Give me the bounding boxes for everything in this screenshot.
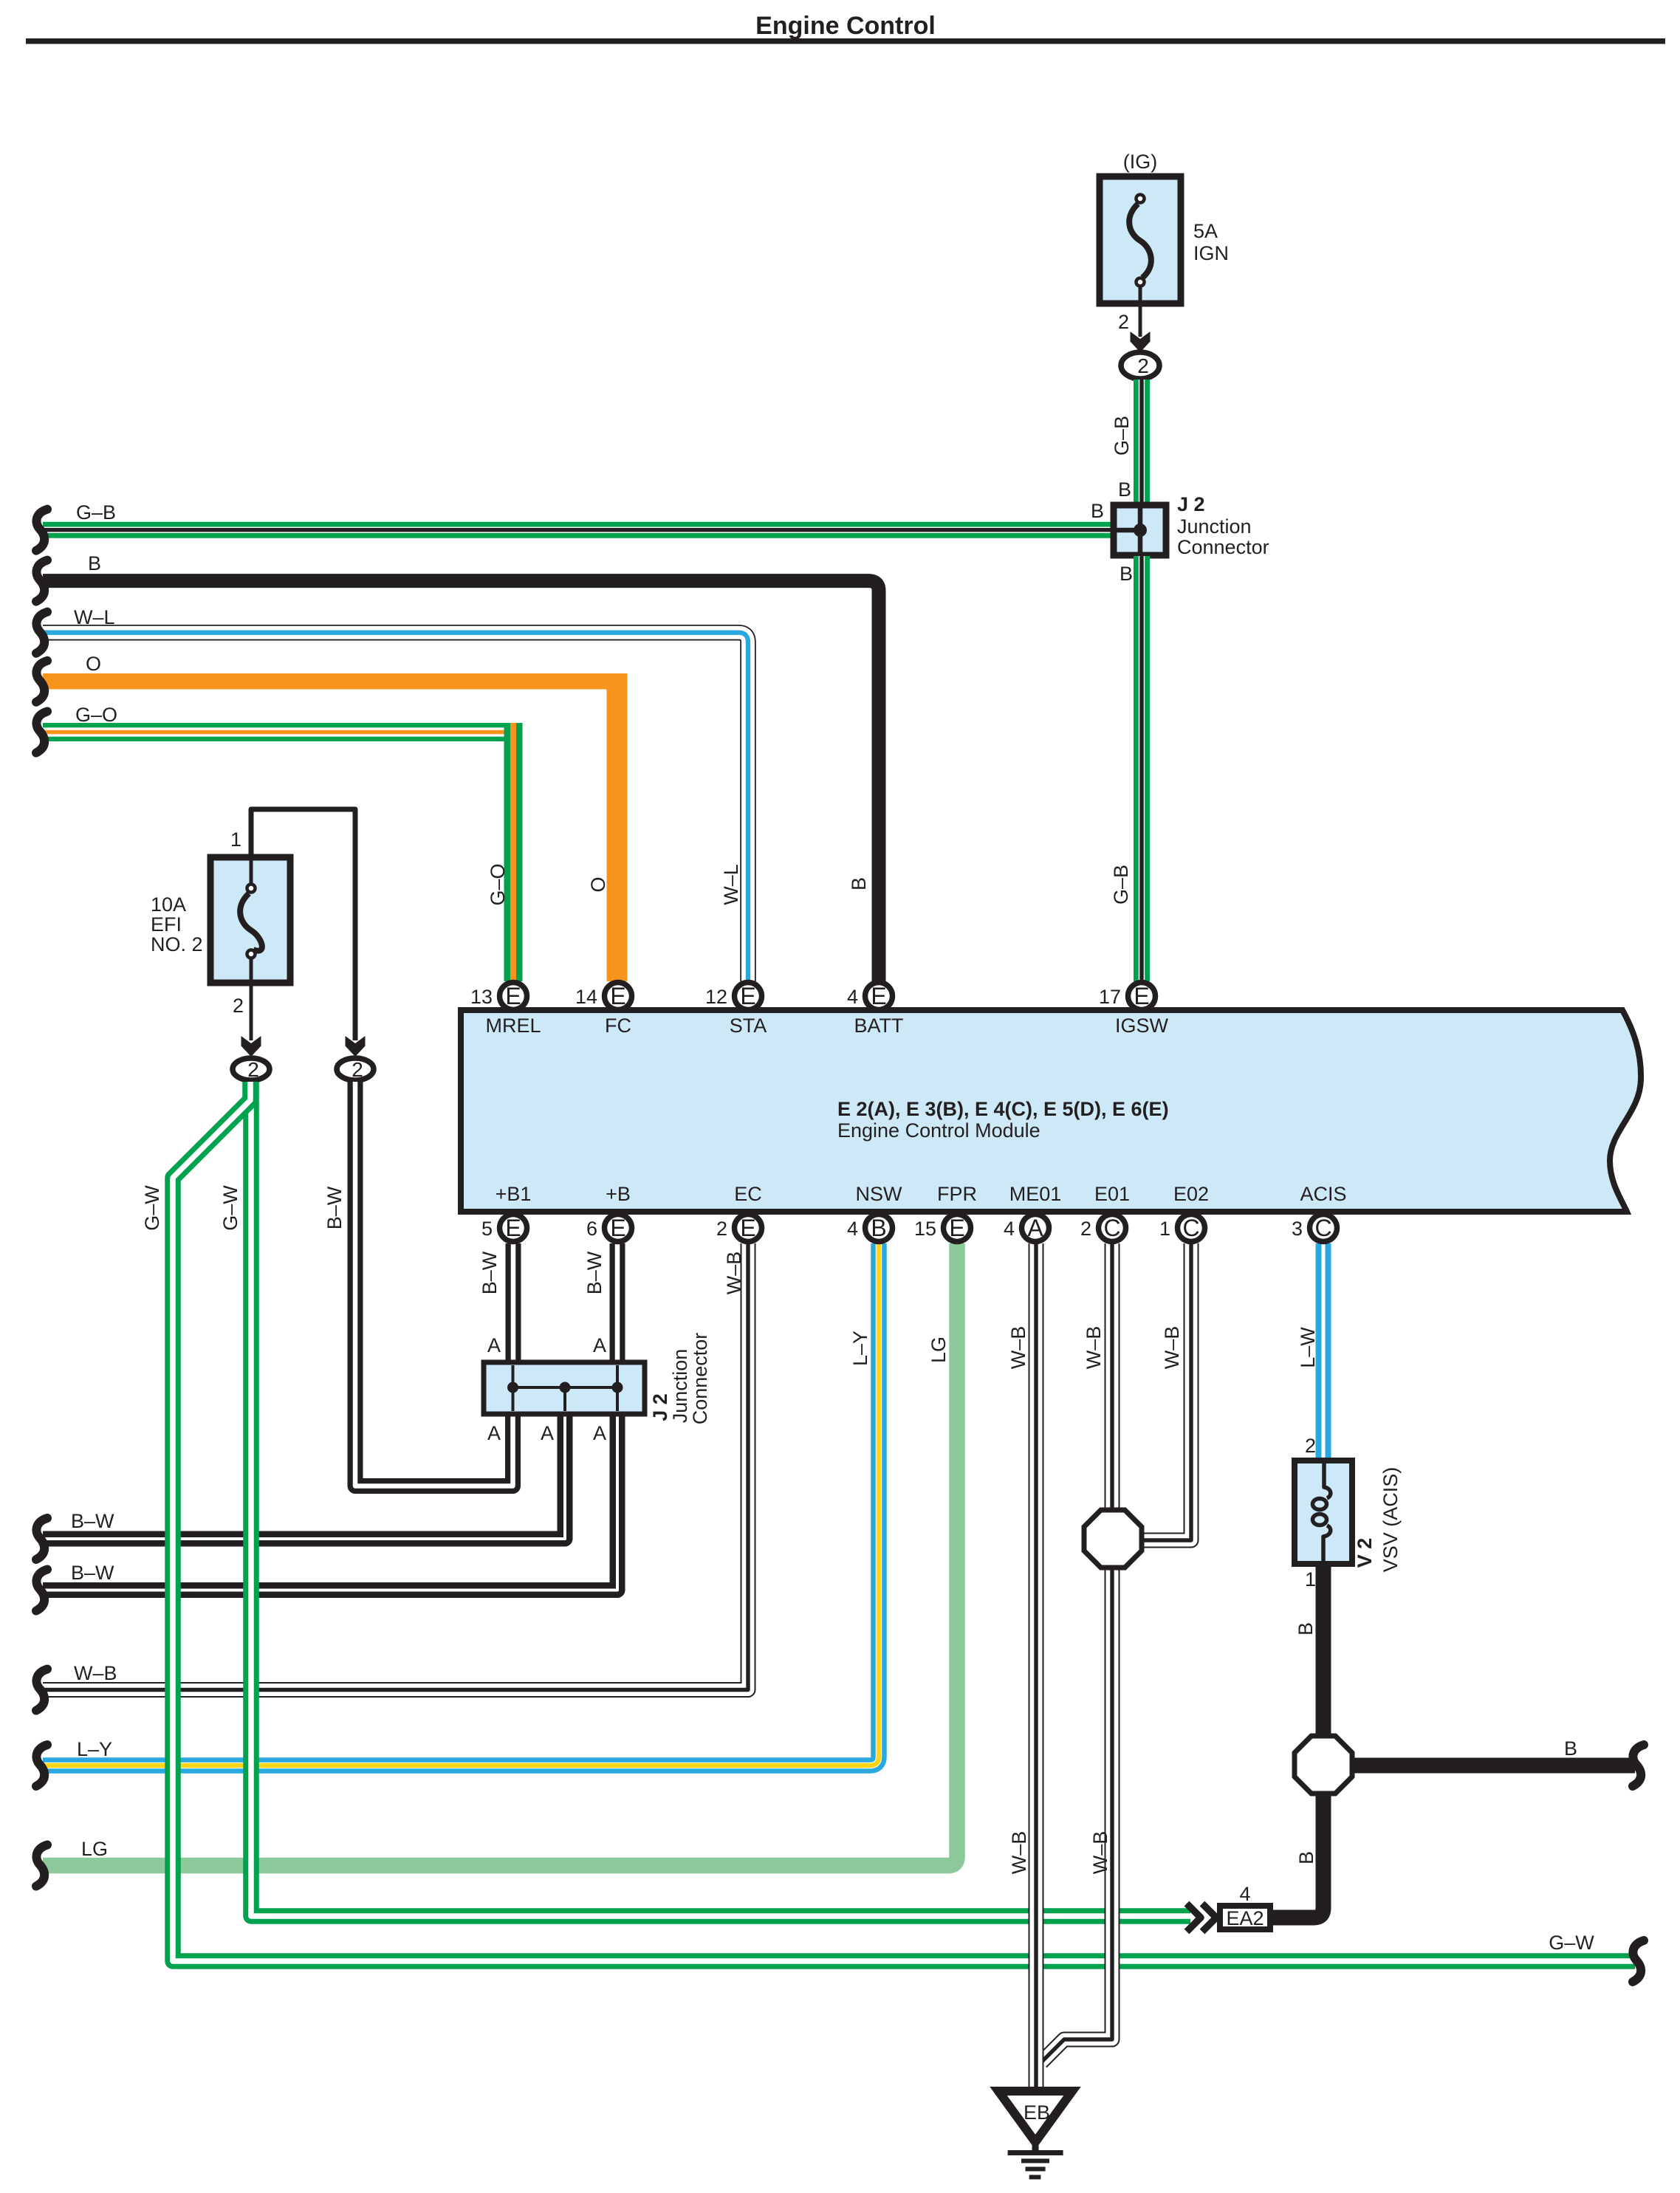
svg-text:B–W: B–W [71, 1562, 114, 1584]
label LG stub [81, 1838, 108, 1860]
label (IG) [1123, 151, 1158, 173]
pin 4 A (ME01) [1004, 1215, 1049, 1242]
svg-text:B: B [88, 552, 101, 574]
label W-L stub [74, 606, 115, 628]
label L-Y stub [77, 1738, 112, 1760]
junction connector J2 (upper) [1114, 505, 1166, 555]
label B left of junction [1091, 500, 1104, 522]
label G-O vertical [487, 863, 509, 905]
label G-B (above IGSW) [1110, 865, 1132, 905]
label B-W stub2 [71, 1562, 114, 1584]
ground EB [998, 2091, 1072, 2177]
wire B-W stub2 to junction port 3 [43, 1415, 617, 1590]
wire EFI fuse pin2 lead [250, 983, 253, 1040]
curl O stub [36, 661, 47, 702]
svg-text:E: E [610, 983, 625, 1009]
svg-text:1: 1 [1159, 1218, 1170, 1240]
svg-text:4: 4 [1004, 1218, 1015, 1240]
svg-text:A: A [593, 1334, 606, 1356]
wire EFI fuse pin1 loop to second dropper [251, 809, 355, 1040]
label 10A EFI NO. 2 [151, 893, 203, 955]
curl B-W stub1 [36, 1518, 47, 1559]
svg-text:MREL: MREL [485, 1015, 541, 1037]
svg-text:B: B [1295, 1851, 1317, 1864]
svg-text:A: A [541, 1422, 554, 1444]
connector arrow into oval 2 [1131, 332, 1151, 352]
svg-text:G–B: G–B [1111, 416, 1133, 456]
svg-text:G–O: G–O [487, 863, 509, 905]
svg-text:W–B: W–B [74, 1662, 117, 1684]
svg-text:ME01: ME01 [1009, 1183, 1062, 1205]
connector chevrons into EA2 [1187, 1904, 1216, 1932]
pin number 2 (IGN fuse) [1118, 311, 1129, 333]
wire L-Y stub to NSW pin [43, 1243, 879, 1765]
node octagon 2 (B junction) [1295, 1736, 1352, 1794]
svg-text:B: B [848, 877, 870, 890]
curl G-W right end [1633, 1940, 1644, 1982]
ECM box E2(A)..E6(E) [461, 1010, 1641, 1212]
svg-text:E: E [949, 1215, 964, 1241]
solenoid valve V2 VSV (ACIS) [1295, 1461, 1352, 1564]
svg-text:W–B: W–B [723, 1252, 745, 1295]
svg-text:G–O: G–O [75, 704, 117, 726]
pin 14 E (FC) [575, 983, 632, 1010]
curl B stub [36, 560, 47, 602]
svg-text:1: 1 [1305, 1568, 1316, 1590]
pin 4 E (BATT) [847, 983, 893, 1010]
label L-W (ACIS) [1297, 1327, 1319, 1368]
svg-text:2: 2 [1080, 1218, 1091, 1240]
wire O left stub to FC pin [43, 673, 628, 981]
wire B left stub to BATT pin [43, 581, 879, 981]
svg-text:W–B: W–B [1007, 1326, 1029, 1370]
svg-text:E: E [1134, 983, 1149, 1009]
svg-text:E: E [610, 1215, 625, 1241]
svg-text:B: B [871, 1215, 886, 1241]
svg-text:B–W: B–W [583, 1251, 606, 1294]
svg-text:4: 4 [847, 1218, 858, 1240]
wire B from node down to EA2 [1272, 1791, 1323, 1918]
label W-B (E01 upper) [1083, 1326, 1105, 1370]
svg-text:10A: 10A [151, 893, 186, 916]
svg-text:13: 13 [470, 986, 493, 1008]
svg-text:NSW: NSW [856, 1183, 903, 1205]
svg-text:Junction: Junction [669, 1349, 691, 1424]
connector arrow into right oval 2 [346, 1036, 366, 1057]
wire B-W from +B1 pin to junction [506, 1243, 521, 1365]
svg-text:E02: E02 [1173, 1183, 1209, 1205]
svg-text:6: 6 [586, 1218, 597, 1240]
svg-text:2: 2 [1305, 1435, 1316, 1457]
svg-text:O: O [86, 653, 101, 675]
svg-text:2: 2 [233, 995, 244, 1017]
curl L-Y stub [36, 1745, 47, 1786]
wire B right stub from node [1351, 1758, 1635, 1774]
svg-text:A: A [593, 1422, 606, 1444]
pin 17 E (IGSW) [1099, 983, 1156, 1010]
svg-text:ACIS: ACIS [1300, 1183, 1346, 1205]
label B above junction [1118, 478, 1131, 501]
wire B-W from +B pin to junction [610, 1243, 625, 1365]
svg-text:EA2: EA2 [1226, 1907, 1264, 1929]
svg-text:+B: +B [606, 1183, 631, 1205]
svg-text:4: 4 [1239, 1883, 1250, 1905]
wire B-W loop from right oval to junction port 1 [355, 1082, 513, 1486]
svg-text:W–B: W–B [1089, 1831, 1111, 1875]
label B-W stub1 [71, 1510, 114, 1532]
label B-W (+B drop) [583, 1251, 606, 1294]
curl W-L stub [36, 612, 47, 653]
pin number 4 (EA2) [1239, 1883, 1250, 1905]
svg-text:2: 2 [1137, 354, 1149, 377]
pin label A (top left) [487, 1334, 501, 1356]
label O stub [86, 653, 101, 675]
svg-text:NO. 2: NO. 2 [151, 933, 203, 955]
wire G-W A from oval to EA2 [251, 1082, 1190, 1916]
pin 2 E (EC) [716, 1215, 762, 1242]
svg-text:W–L: W–L [720, 864, 742, 905]
pin label A (bottom left) [487, 1422, 501, 1444]
pin number 2 (VSV) [1305, 1435, 1316, 1457]
svg-text:+B1: +B1 [496, 1183, 532, 1205]
label O vertical [587, 876, 609, 892]
svg-text:J 2: J 2 [1177, 493, 1205, 515]
wire G-W B from oval to right edge [173, 1082, 1635, 1961]
svg-text:EFI: EFI [151, 913, 182, 936]
wire B from VSV to node octagon 2 [1316, 1564, 1331, 1739]
svg-text:STA: STA [730, 1015, 767, 1037]
svg-text:G–W: G–W [141, 1185, 163, 1231]
svg-text:FC: FC [605, 1015, 631, 1037]
pin 6 E (+B) [586, 1215, 632, 1242]
svg-text:(IG): (IG) [1123, 151, 1158, 173]
svg-text:C: C [1103, 1215, 1120, 1241]
wire G-O left stub to MREL pin [43, 723, 523, 981]
svg-text:1: 1 [230, 828, 241, 851]
svg-text:Engine Control Module: Engine Control Module [837, 1119, 1040, 1142]
label G-W vertical right [219, 1185, 241, 1231]
label B-W (+B1 drop) [479, 1251, 501, 1294]
svg-text:BATT: BATT [854, 1015, 904, 1037]
curl G-O stub [36, 712, 47, 753]
label B-W (right oval drop) [323, 1186, 346, 1229]
curl B right end [1633, 1745, 1644, 1786]
svg-text:Connector: Connector [689, 1333, 711, 1425]
svg-text:L–Y: L–Y [849, 1331, 871, 1366]
label J2 junction connector (lower) [649, 1333, 711, 1425]
svg-text:B: B [1118, 478, 1131, 501]
svg-text:B–W: B–W [323, 1186, 346, 1229]
svg-text:2: 2 [352, 1058, 363, 1081]
svg-text:IGSW: IGSW [1115, 1015, 1169, 1037]
svg-text:12: 12 [705, 986, 727, 1008]
title: Engine Control [755, 12, 936, 40]
svg-text:B–W: B–W [71, 1510, 114, 1532]
pin 5 E (+B1) [481, 1215, 527, 1242]
svg-text:FPR: FPR [937, 1183, 977, 1205]
svg-text:B: B [1295, 1622, 1317, 1636]
svg-text:EB: EB [1024, 2101, 1050, 2124]
pin 13 E (MREL) [470, 983, 527, 1010]
connector oval 2 (right) [337, 1058, 374, 1081]
pin 1 C (E02) [1159, 1215, 1205, 1242]
wire LG stub to FPR pin [43, 1243, 957, 1866]
svg-text:Engine Control: Engine Control [755, 12, 936, 40]
label LG vertical [928, 1336, 950, 1363]
curl B-W stub2 [36, 1570, 47, 1611]
junction connector J2 (lower) [484, 1362, 645, 1414]
svg-text:G–B: G–B [76, 501, 116, 524]
label J2 junction connector (upper) [1177, 493, 1269, 558]
curl LG stub [36, 1845, 47, 1887]
label L-Y vertical [849, 1331, 871, 1366]
svg-text:W–L: W–L [74, 606, 115, 628]
svg-text:B: B [1091, 500, 1104, 522]
label B below junction [1120, 563, 1133, 585]
label W-B (ME01 upper) [1007, 1326, 1029, 1370]
label B (VSV drop) [1295, 1622, 1317, 1636]
svg-text:B: B [1120, 563, 1133, 585]
wire L-W from ACIS pin to VSV [1316, 1243, 1331, 1461]
svg-text:L–W: L–W [1297, 1327, 1319, 1368]
svg-text:G–W: G–W [1549, 1932, 1594, 1954]
svg-text:2: 2 [1118, 311, 1129, 333]
svg-text:EC: EC [734, 1183, 762, 1205]
label G-W right [1549, 1932, 1594, 1954]
svg-text:W–B: W–B [1161, 1326, 1183, 1370]
svg-text:Junction: Junction [1177, 515, 1252, 538]
svg-text:17: 17 [1099, 986, 1121, 1008]
ECM pin labels bottom row [496, 1183, 1347, 1205]
svg-text:C: C [1182, 1215, 1199, 1241]
svg-text:O: O [587, 876, 609, 892]
svg-text:E01: E01 [1094, 1183, 1130, 1205]
svg-text:G–W: G–W [219, 1185, 241, 1231]
connector arrow into left oval 2 [241, 1036, 261, 1057]
pin 12 E (STA) [705, 983, 762, 1010]
svg-text:V 2: V 2 [1354, 1538, 1376, 1568]
svg-text:B: B [1564, 1737, 1577, 1760]
svg-text:15: 15 [914, 1218, 936, 1240]
label V2 VSV (ACIS) [1354, 1467, 1402, 1573]
wire W-B from E01 pin through node to EB ground [1041, 1243, 1112, 2062]
svg-text:E: E [740, 1215, 755, 1241]
label W-B stub [74, 1662, 117, 1684]
pin label A (bottom right) [593, 1422, 606, 1444]
label W-B (E01 lower) [1089, 1831, 1111, 1875]
label 5A IGN [1193, 220, 1229, 264]
svg-text:3: 3 [1292, 1218, 1303, 1240]
pin number 1 (EFI fuse) [230, 828, 241, 851]
pin number 2 (EFI fuse) [233, 995, 244, 1017]
svg-text:Connector: Connector [1177, 536, 1269, 558]
svg-text:W–B: W–B [1008, 1831, 1030, 1875]
node octagon (E01/E02 junction) [1084, 1510, 1142, 1568]
svg-text:A: A [487, 1422, 501, 1444]
svg-text:4: 4 [847, 986, 858, 1008]
wire fuse IGN pin 2 lead [1139, 304, 1142, 337]
svg-text:J 2: J 2 [649, 1393, 671, 1421]
wire W-B from ME01 pin to EB ground [1029, 1243, 1044, 2094]
connector oval 2 (left) [233, 1058, 270, 1081]
curl W-B stub [36, 1669, 47, 1711]
connector EA2 [1220, 1906, 1270, 1929]
pin 4 B (NSW) [847, 1215, 893, 1242]
svg-text:A: A [487, 1334, 501, 1356]
svg-text:A: A [1027, 1215, 1043, 1241]
pin 2 C (E01) [1080, 1215, 1126, 1242]
svg-text:G–B: G–B [1110, 865, 1132, 905]
svg-text:LG: LG [81, 1838, 108, 1860]
svg-text:2: 2 [247, 1058, 259, 1081]
label G-O stub [75, 704, 117, 726]
svg-text:L–Y: L–Y [77, 1738, 112, 1760]
fuse 5A IGN (IG) [1100, 176, 1181, 306]
svg-text:C: C [1314, 1215, 1331, 1241]
wire G-B left stub to J2 junction [43, 522, 1113, 538]
svg-text:E 2(A), E 3(B), E 4(C), E 5(D): E 2(A), E 3(B), E 4(C), E 5(D), E 6(E) [837, 1098, 1169, 1120]
title rule [26, 38, 1665, 44]
svg-text:2: 2 [716, 1218, 727, 1240]
label W-L vertical [720, 864, 742, 905]
svg-text:VSV (ACIS): VSV (ACIS) [1379, 1467, 1402, 1573]
curl G-B stub [36, 509, 47, 551]
wire W-B stub to EC pin [43, 1243, 748, 1690]
label W-B (ME01 lower) [1008, 1831, 1030, 1875]
pin 15 E (FPR) [914, 1215, 971, 1242]
pin 3 C (ACIS) [1292, 1215, 1337, 1242]
svg-text:14: 14 [575, 986, 597, 1008]
pin label A (top right) [593, 1334, 606, 1356]
svg-text:5: 5 [481, 1218, 493, 1240]
pin label A (bottom mid) [541, 1422, 554, 1444]
svg-text:E: E [871, 983, 886, 1009]
wire W-L left stub to STA pin [43, 633, 748, 981]
label W-B (E02) [1161, 1326, 1183, 1370]
wire B-W stub1 to junction port 2 [43, 1415, 565, 1539]
svg-text:E: E [505, 1215, 521, 1241]
svg-text:B–W: B–W [479, 1251, 501, 1294]
label G-B (above junction) [1111, 416, 1133, 456]
label W-B (EC drop) [723, 1252, 745, 1295]
svg-text:W–B: W–B [1083, 1326, 1105, 1370]
connector oval 2 (IG circuit) [1121, 352, 1159, 379]
fuse 10A EFI NO.2 [210, 857, 290, 983]
pin number 1 (VSV) [1305, 1568, 1316, 1590]
wire W-B from E02 pin to node [1142, 1243, 1191, 1540]
wire G-B from junction down to IGSW pin [1134, 556, 1150, 981]
svg-text:E: E [505, 983, 521, 1009]
svg-text:5A: 5A [1193, 220, 1218, 242]
ECM pin labels top row [485, 1015, 1168, 1037]
label G-B stub [76, 501, 116, 524]
svg-text:IGN: IGN [1193, 242, 1229, 264]
svg-text:LG: LG [928, 1336, 950, 1363]
label B vertical [848, 877, 870, 890]
wire G-B from oval down to J2 junction [1134, 380, 1150, 505]
label B right stub [1564, 1737, 1577, 1760]
svg-text:E: E [740, 983, 755, 1009]
label G-W vertical left [141, 1185, 163, 1231]
label B stub [88, 552, 101, 574]
label B (lower drop) [1295, 1851, 1317, 1864]
